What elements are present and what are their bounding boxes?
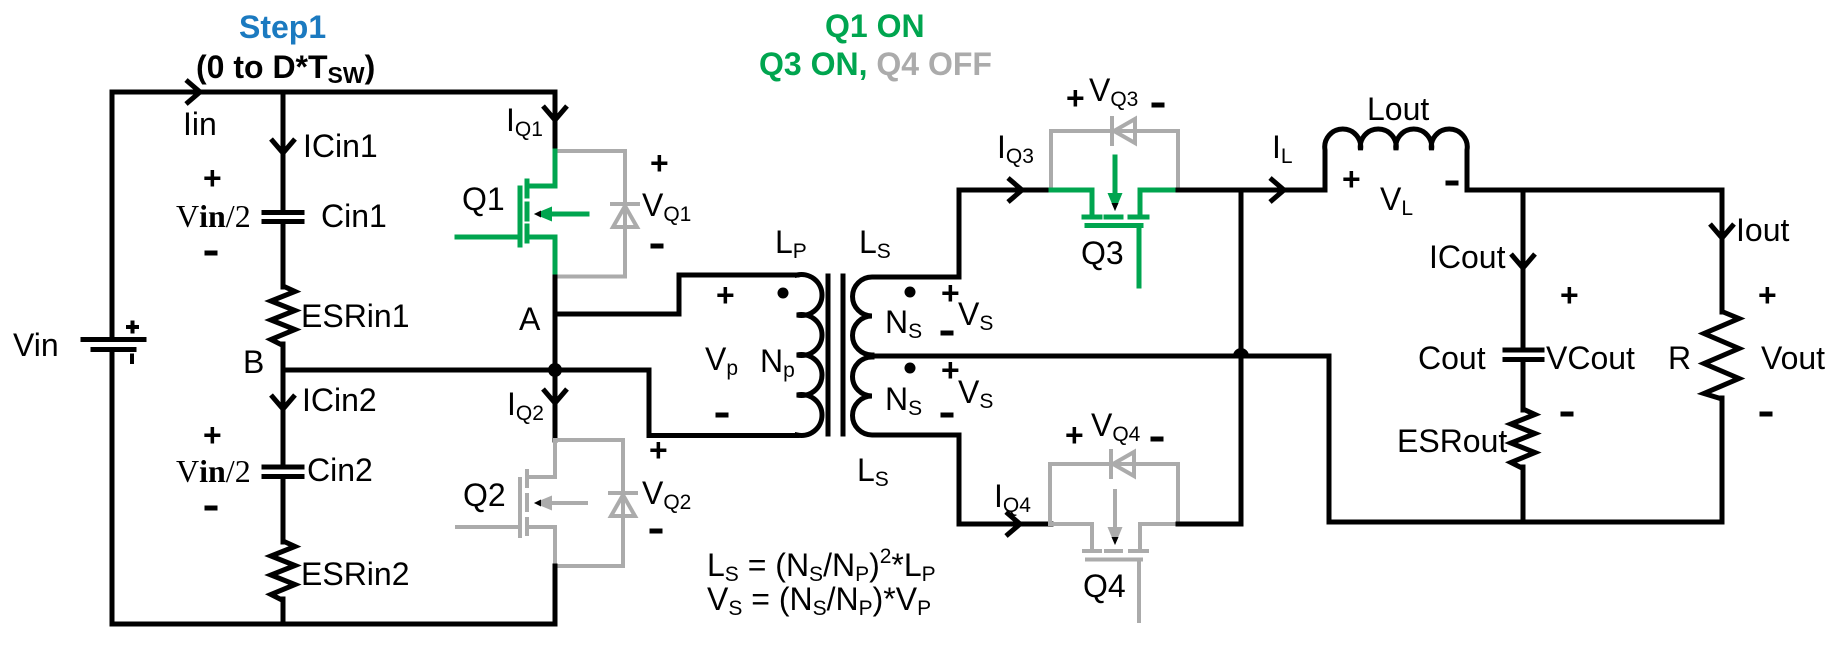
svg-text:ESRin2: ESRin2: [301, 556, 410, 592]
svg-text:+: +: [203, 417, 222, 453]
label minus VL: [1446, 181, 1459, 186]
label minus VQ2: [650, 529, 663, 534]
wire Q4 to junction vertical: [1178, 522, 1241, 527]
inductor Lout: [1325, 129, 1468, 190]
svg-text:Q3: Q3: [1081, 235, 1124, 271]
svg-text:LS = (NS/NP)2*LP: LS = (NS/NP)2*LP: [707, 545, 936, 586]
svg-text:Iin: Iin: [183, 106, 217, 142]
wire node B junction down to Q2: [553, 370, 558, 440]
svg-text:ICin2: ICin2: [302, 382, 377, 418]
svg-text:Q3 ON, Q4 OFF: Q3 ON, Q4 OFF: [759, 46, 992, 82]
label minus VQ4: [1151, 437, 1164, 442]
arrow IL: [1270, 178, 1284, 202]
wire Lout to output: [1467, 188, 1722, 193]
svg-text:LP: LP: [775, 224, 807, 263]
transistor Q3 gate lead: [1137, 226, 1142, 287]
svg-text:+: +: [1065, 417, 1084, 453]
junction dot at Q2 branch: [548, 363, 562, 377]
transistor Q2 drain lead: [527, 440, 555, 477]
svg-text:Vp: Vp: [705, 341, 738, 380]
body diode loop Q1: [555, 151, 625, 277]
wire Q1 drain from top rail: [553, 92, 558, 151]
capacitor Cin1: [264, 213, 302, 222]
svg-text:+: +: [716, 277, 735, 313]
transistor Q4 channel dashes: [1084, 549, 1147, 553]
transistor Q1 drain lead: [527, 151, 555, 186]
resistor R: [1704, 312, 1739, 400]
transistor Q1 gate lead: [457, 235, 520, 240]
svg-text:Q1 ON: Q1 ON: [825, 8, 925, 44]
svg-text:VS = (NS/NP)*VP: VS = (NS/NP)*VP: [707, 581, 931, 620]
svg-text:+: +: [941, 275, 960, 311]
svg-text:ICout: ICout: [1429, 239, 1506, 275]
body diode loop Q2: [555, 440, 623, 566]
arrow IQ2: [543, 389, 567, 403]
svg-text:Cout: Cout: [1418, 340, 1486, 376]
svg-text:VS: VS: [958, 296, 993, 335]
arrow Iout: [1710, 224, 1734, 238]
svg-text:+: +: [1342, 161, 1361, 197]
transistor Q1 gate bar: [518, 188, 523, 245]
wire left rail + top rail: [112, 92, 555, 337]
arrow ICout: [1511, 254, 1535, 268]
transistor Q1 channel dashes: [525, 181, 530, 241]
secondary top dot: [905, 287, 916, 298]
svg-text:IL: IL: [1272, 129, 1293, 168]
transistor Q4 gate lead: [1137, 560, 1141, 622]
svg-text:Np: Np: [760, 343, 795, 382]
svg-text:+: +: [203, 160, 222, 196]
svg-text:+: +: [1560, 277, 1579, 313]
svg-text:VQ1: VQ1: [642, 187, 691, 226]
svg-text:Cin2: Cin2: [307, 452, 373, 488]
arrow ICin1: [271, 139, 295, 153]
arrow IQ1: [543, 106, 567, 120]
resistor ESRin2: [271, 541, 295, 601]
svg-text:Vin/2: Vin/2: [176, 453, 251, 489]
capacitor Cout: [1505, 350, 1542, 360]
wire Cin2 to ESRin2: [281, 479, 286, 542]
label minus VCout: [1561, 412, 1574, 417]
svg-text:R: R: [1668, 340, 1691, 376]
wire Cout branch: [1521, 190, 1526, 348]
svg-text:VQ2: VQ2: [642, 475, 691, 514]
svg-text:VQ4: VQ4: [1091, 407, 1141, 446]
primary dot: [778, 288, 789, 299]
svg-text:+: +: [649, 432, 668, 468]
svg-text:+: +: [1066, 80, 1085, 116]
svg-text:Vin/2: Vin/2: [176, 198, 251, 234]
transistor Q2 channel dashes: [525, 471, 529, 534]
transistor Q2 gate lead: [457, 525, 520, 529]
transformer secondary bottom winding: [853, 357, 1052, 524]
battery Vin long plate: [83, 337, 144, 342]
transistor Q2 source lead: [527, 527, 555, 566]
transistor Q2 body arrow: [552, 501, 586, 505]
transistor Q4 drain lead: [1140, 524, 1178, 549]
wire Cin1 to ESRin1: [281, 224, 286, 288]
transformer secondary top winding: [853, 190, 1052, 355]
wire ESRin1 to node B: [281, 344, 286, 370]
svg-text:+: +: [1758, 277, 1777, 313]
capacitor Cin2: [264, 467, 302, 477]
svg-text:Lout: Lout: [1367, 91, 1429, 127]
svg-text:IQ4: IQ4: [994, 478, 1031, 517]
transistor Q4 body arrow: [1113, 491, 1117, 529]
label minus Vin/2 lower: [205, 506, 218, 511]
label minus VQ1: [651, 244, 664, 249]
svg-text:IQ3: IQ3: [997, 129, 1034, 168]
transistor Q2 gate bar: [518, 479, 522, 536]
svg-text:VL: VL: [1380, 181, 1413, 220]
diode D4: [1111, 451, 1134, 477]
svg-text:IQ1: IQ1: [506, 102, 543, 141]
wire Q2 source to bottom rail: [553, 566, 558, 624]
svg-text:+: +: [650, 145, 669, 181]
svg-text:VQ3: VQ3: [1089, 72, 1138, 111]
svg-text:(0 to D*TSW): (0 to D*TSW): [196, 49, 375, 88]
transistor Q1 body arrow: [552, 212, 587, 217]
label minus Vout: [1760, 412, 1773, 417]
wire bottom rail + left rail lower: [112, 351, 555, 624]
label minus Vs top: [941, 331, 954, 336]
svg-text:VCout: VCout: [1546, 340, 1635, 376]
arrow IQ3: [1008, 178, 1022, 202]
transistor Q3 source lead: [1051, 190, 1092, 214]
battery plus mark: [126, 321, 139, 334]
body diode loop Q3: [1051, 131, 1178, 190]
svg-text:LS: LS: [857, 452, 889, 491]
battery Vin short plate: [93, 347, 134, 352]
label minus VQ3: [1152, 103, 1165, 108]
svg-text:Step1: Step1: [239, 9, 326, 45]
wire ESRout to bottom rail: [1521, 467, 1526, 522]
svg-text:Vout: Vout: [1761, 340, 1825, 376]
svg-text:ESRin1: ESRin1: [301, 298, 410, 334]
svg-text:Q4: Q4: [1083, 568, 1126, 604]
label minus Vs bottom: [941, 413, 954, 418]
transformer primary winding Lp: [797, 275, 822, 436]
svg-text:NS: NS: [885, 381, 922, 420]
resistor ESRout: [1511, 409, 1535, 469]
wire Cin1 branch upper: [281, 92, 286, 211]
wire node A to primary top: [555, 275, 797, 314]
wire center tap ground drop and bottom output rail: [1329, 356, 1722, 522]
transformer core: [828, 276, 843, 434]
svg-text:Cin1: Cin1: [321, 198, 387, 234]
arrow IQ4: [1006, 512, 1020, 536]
wire R to bottom rail: [1720, 398, 1725, 522]
wire Cout to ESRout: [1521, 361, 1526, 410]
wire R branch: [1720, 190, 1725, 312]
transistor Q3 gate bar: [1087, 223, 1141, 228]
resistor ESRin1: [271, 286, 295, 346]
svg-text:Vin: Vin: [13, 327, 59, 363]
svg-text:IQ2: IQ2: [507, 386, 544, 425]
label minus Vp: [716, 413, 729, 418]
svg-text:NS: NS: [885, 304, 922, 343]
body diode loop Q4: [1050, 464, 1178, 524]
arrow Iin: [186, 80, 200, 104]
arrow ICin2: [271, 395, 295, 409]
wire Q3 to Lout: [1178, 188, 1325, 193]
label minus Vin/2 upper: [205, 251, 218, 256]
wire node B row to primary bottom: [283, 370, 797, 436]
diode D1: [612, 204, 638, 227]
wire Cin2 branch upper: [281, 370, 286, 465]
transistor Q4 gate bar: [1087, 558, 1141, 562]
svg-text:B: B: [243, 344, 264, 380]
wire Q1 source to node A and down to node B row: [553, 277, 558, 370]
svg-text:ICin1: ICin1: [303, 128, 378, 164]
wire ESRin2 to bottom rail: [281, 599, 286, 624]
svg-text:LS: LS: [859, 224, 891, 263]
transistor Q4 source lead: [1050, 524, 1092, 548]
svg-text:Q1: Q1: [462, 181, 505, 217]
svg-text:Iout: Iout: [1736, 212, 1789, 248]
transistor Q3 channel dashes: [1084, 215, 1147, 220]
wire Q3 Q4 connecting vertical: [1239, 190, 1244, 524]
svg-text:VS: VS: [958, 374, 993, 413]
diode D3: [1112, 118, 1135, 144]
transistor Q1 source lead: [527, 237, 555, 277]
svg-text:ESRout: ESRout: [1397, 423, 1507, 459]
secondary bottom dot: [905, 363, 916, 374]
diode D2: [610, 493, 636, 516]
transistor Q3 drain lead: [1140, 190, 1178, 215]
center tap wire with hop over: [872, 354, 1329, 359]
svg-text:Q2: Q2: [463, 477, 506, 513]
svg-text:A: A: [519, 301, 541, 337]
transistor Q3 body arrow: [1113, 157, 1118, 195]
battery minus mark: [130, 354, 134, 365]
